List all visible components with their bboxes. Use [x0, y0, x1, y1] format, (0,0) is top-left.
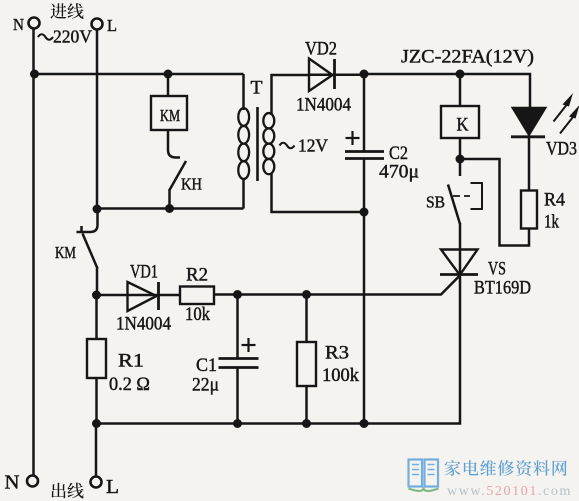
svg-text:R1: R1	[118, 351, 144, 372]
node C2 top	[360, 70, 369, 79]
wire primary bottom bus	[96, 207, 244, 210]
capacitor C1	[219, 359, 259, 368]
wire K coil top	[459, 74, 462, 106]
svg-text:R2: R2	[186, 265, 208, 286]
watermark book icon	[409, 460, 439, 492]
transformer T core	[256, 107, 259, 181]
label ~12V	[280, 136, 329, 156]
polarity + C2	[346, 131, 360, 145]
resistor R2	[180, 287, 214, 305]
node C2 bottom	[360, 419, 369, 428]
LED VD3 arrows	[554, 93, 579, 134]
switch SB actuator link	[453, 195, 470, 197]
svg-text:www.520101.com: www.520101.com	[447, 484, 572, 499]
wire R3 bottom lead	[305, 386, 308, 424]
svg-text:L: L	[107, 16, 117, 35]
wire C1 bottom lead	[236, 368, 239, 424]
diode VD2	[309, 59, 335, 92]
wire L out lead	[95, 424, 98, 477]
wire L vertical top	[96, 30, 99, 210]
svg-text:470μ: 470μ	[379, 162, 419, 183]
label 出线	[51, 483, 65, 498]
svg-text:BT169D: BT169D	[474, 278, 531, 299]
wire R3 top lead	[305, 295, 308, 343]
resistor R1	[87, 339, 106, 378]
resistor R4	[521, 191, 537, 229]
transformer T primary lead bottom	[242, 179, 245, 209]
wire KM coil branch	[167, 74, 170, 96]
node N-bus junction	[30, 70, 39, 79]
switch KM blade	[83, 234, 98, 269]
terminal L in	[92, 19, 103, 30]
wire VD2 to C2 node	[308, 73, 364, 76]
svg-text:VD2: VD2	[305, 39, 337, 60]
svg-text:10k: 10k	[185, 304, 210, 325]
svg-text:L: L	[106, 476, 119, 498]
svg-text:K: K	[457, 115, 469, 136]
svg-text:KM: KM	[160, 106, 180, 125]
node C1 bottom	[233, 419, 242, 428]
wire VS gate	[214, 276, 460, 295]
svg-text:R3: R3	[325, 343, 349, 364]
wire top bus	[34, 73, 244, 76]
svg-text:R4: R4	[544, 190, 565, 211]
node K branch	[456, 70, 465, 79]
wire VD3 to R4	[528, 137, 531, 191]
wire R1 top lead	[95, 295, 98, 339]
node C1 top	[233, 290, 242, 299]
watermark 家电维修资料网	[445, 460, 461, 476]
wire N vertical	[32, 29, 35, 476]
wire junction to R4 bottom	[460, 159, 529, 246]
switch SB actuator	[471, 183, 483, 209]
wire secondary bus right	[364, 74, 530, 108]
switch KH blade	[170, 161, 187, 190]
svg-text:N: N	[5, 472, 20, 494]
wire KM blade to node	[96, 268, 99, 295]
svg-text:12V: 12V	[298, 136, 328, 156]
svg-text:0.2 Ω: 0.2 Ω	[109, 374, 150, 395]
node K-SB junction	[456, 155, 465, 164]
terminal N in	[29, 18, 40, 29]
wire C2 bottom lead	[363, 159, 366, 213]
label ~220V	[38, 27, 92, 47]
node R1 top	[92, 291, 101, 300]
switch SB fixed lead	[459, 159, 462, 176]
capacitor C2	[345, 152, 384, 159]
wire C2 top lead	[363, 74, 366, 151]
svg-text:220V: 220V	[53, 27, 92, 47]
contactor coil KM	[151, 96, 187, 130]
terminal N out	[27, 476, 38, 487]
transformer T secondary winding	[263, 113, 274, 128]
wire K coil bottom	[459, 138, 462, 159]
node secondary bottom	[360, 208, 369, 217]
transformer T primary lead top	[242, 74, 245, 110]
terminal L out	[91, 477, 102, 488]
polarity + C1	[242, 338, 256, 352]
svg-text:JZC-22FA(12V): JZC-22FA(12V)	[401, 47, 534, 68]
switch KM fixed contact	[77, 209, 98, 232]
svg-text:N: N	[13, 15, 24, 34]
thyristor VS	[440, 250, 478, 276]
svg-text:KH: KH	[181, 175, 202, 194]
svg-text:1N4004: 1N4004	[116, 314, 171, 335]
wire VS cathode	[96, 275, 460, 424]
svg-text:KM: KM	[55, 243, 76, 262]
svg-text:VD3: VD3	[546, 139, 577, 160]
wire KH to bottom	[168, 189, 171, 209]
wire KM coil to KH contact	[168, 130, 180, 158]
LED VD3	[511, 108, 546, 137]
svg-text:T: T	[251, 78, 263, 99]
transformer T secondary lead bottom	[272, 173, 365, 212]
svg-text:1k: 1k	[544, 212, 559, 233]
node KM branch junction	[164, 70, 173, 79]
transformer T primary winding	[238, 108, 249, 126]
svg-text:VD1: VD1	[130, 262, 158, 283]
node KH junction	[165, 204, 174, 213]
svg-text:VS: VS	[488, 259, 506, 280]
svg-text:22μ: 22μ	[192, 375, 219, 396]
wire SB to VS anode	[459, 223, 462, 275]
svg-text:1N4004: 1N4004	[296, 95, 351, 116]
node R1 bottom	[92, 419, 101, 428]
relay coil K	[441, 106, 479, 138]
transformer T secondary lead top	[272, 75, 309, 115]
wire C1 top lead	[236, 295, 239, 359]
svg-text:C1: C1	[196, 355, 217, 376]
diode VD1	[128, 282, 159, 311]
svg-text:SB: SB	[426, 193, 445, 212]
switch SB blade	[448, 185, 460, 225]
svg-text:100k: 100k	[322, 365, 359, 386]
wire C2 node to ground bus	[363, 212, 366, 424]
resistor R3	[297, 342, 316, 386]
wire node through VD1 to R2	[97, 294, 180, 297]
label 进线	[50, 3, 66, 19]
node R3 top	[302, 290, 311, 299]
node R3 bottom	[302, 419, 311, 428]
node L-KM junction	[93, 205, 102, 214]
wire R1 bottom lead	[95, 378, 98, 424]
